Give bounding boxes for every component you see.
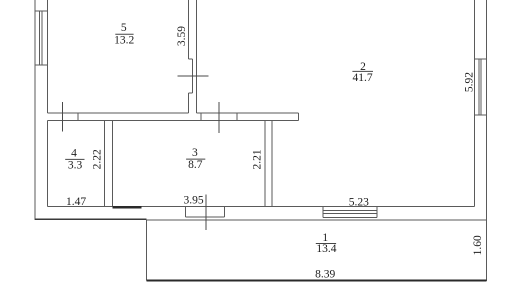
- wire room3 left wall: [112, 121, 114, 207]
- svg-text:5.92: 5.92: [464, 72, 476, 92]
- wire horizontal bar top room2: [197, 112, 299, 114]
- svg-text:1.47: 1.47: [66, 196, 86, 208]
- wire bottom outer wall line: [146, 219, 486, 221]
- svg-text:13.4: 13.4: [316, 243, 336, 255]
- wire room3 right wall right line: [271, 121, 273, 207]
- svg-text:3: 3: [192, 147, 198, 159]
- svg-text:8.39: 8.39: [315, 268, 335, 280]
- svg-text:2.21: 2.21: [251, 149, 263, 169]
- wire left inner wall above window: [47, 0, 49, 113]
- door jamb in wall 5/2: [189, 58, 193, 60]
- svg-text:3.3: 3.3: [68, 160, 83, 172]
- wire wall room5/room2 left line: [188, 0, 190, 59]
- wire right outer wall above window: [486, 0, 488, 281]
- svg-text:1.60: 1.60: [472, 235, 484, 255]
- wire room1 left wall: [145, 220, 147, 281]
- wire bar cap 2: [236, 113, 238, 120]
- wire horizontal wall line B: [48, 120, 299, 122]
- window W5 left wall: [35, 10, 48, 12]
- wire left outer wall: [34, 0, 36, 220]
- node room3 label: [186, 147, 205, 171]
- svg-text:41.7: 41.7: [352, 72, 372, 84]
- door D1 exterior door recess: [185, 207, 187, 218]
- wire bar cap 3: [298, 113, 300, 120]
- wire stub junction: [77, 113, 79, 121]
- wire room4 left wall: [47, 121, 49, 207]
- svg-text:5: 5: [121, 22, 127, 34]
- tick mark T4 near 3.95: [205, 195, 207, 231]
- wire thick door sill room3: [113, 206, 142, 208]
- node room1 label: [316, 232, 337, 255]
- window W1 between room2 and room1: [322, 207, 324, 218]
- window W2 right wall: [475, 58, 487, 60]
- svg-text:3.95: 3.95: [184, 195, 204, 207]
- svg-text:3.59: 3.59: [176, 26, 188, 46]
- wire bar cap 1: [200, 113, 202, 120]
- wire room3 right wall left line: [264, 121, 266, 207]
- tick mark T1 on room4 top wall: [62, 102, 64, 132]
- wire bottom inner wall line: [48, 206, 475, 208]
- svg-text:2.22: 2.22: [91, 149, 103, 169]
- wire room4 right wall: [104, 121, 106, 207]
- node room4 label: [65, 148, 84, 172]
- node room2 label: [352, 61, 373, 84]
- node room5 label: [114, 22, 134, 47]
- wire horizontal wall line A room5 bottom: [48, 112, 189, 114]
- tick mark T3 on bar wall: [218, 102, 220, 133]
- svg-text:4: 4: [71, 148, 77, 160]
- svg-text:5.23: 5.23: [349, 196, 369, 208]
- wire bottom outer wall line left thick part: [35, 218, 146, 220]
- tick mark T2 on wall 5/2: [178, 75, 209, 77]
- svg-text:8.7: 8.7: [188, 159, 203, 171]
- svg-text:13.2: 13.2: [114, 35, 134, 47]
- wire room1 bottom wall: [146, 280, 486, 282]
- wire right inner wall above window: [474, 0, 476, 207]
- wire wall room5/room2 right line: [196, 0, 198, 113]
